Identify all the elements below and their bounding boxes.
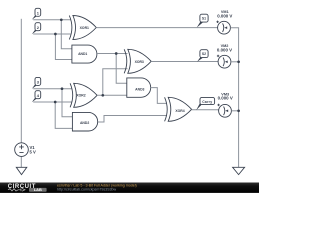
- node dot AND1 out branch: [115, 52, 118, 55]
- wire branch to AND2 top: [62, 89, 72, 117]
- wire V1 to ground: [20, 157, 22, 168]
- node dot rail VM2: [237, 60, 240, 63]
- wire XOR2 out to AND3 bottom: [97, 94, 127, 96]
- footer bar: [0, 183, 259, 193]
- node dot input2 branch: [54, 33, 57, 36]
- wire VM1 right to rail down to ground: [230, 28, 238, 168]
- svg-text:XOR4: XOR4: [175, 109, 184, 113]
- xor gate XOR1: [69, 16, 96, 40]
- wire input 1 to XOR1: [33, 19, 70, 21]
- svg-text:XOR1: XOR1: [80, 26, 89, 30]
- flag S1: [197, 22, 204, 28]
- wire VM3 right to rail: [231, 110, 238, 112]
- wire branch to AND1 bottom: [55, 34, 72, 60]
- node dot XOR2 out branch: [101, 94, 104, 97]
- svg-text:XOR3: XOR3: [135, 60, 144, 64]
- svg-text:S1: S1: [202, 17, 206, 21]
- svg-text:http://circuitlab.com/ckpsm79s: http://circuitlab.com/ckpsm79s3S3bw: [57, 187, 117, 191]
- wire XOR3 out to VM2: [151, 61, 218, 63]
- svg-text:0.000 V: 0.000 V: [217, 48, 232, 53]
- and gate AND1: [72, 45, 97, 63]
- voltage source V1: [15, 143, 29, 157]
- svg-text:0.000 V: 0.000 V: [218, 95, 233, 100]
- flag S2: [197, 57, 204, 62]
- voltmeter VM1: [216, 10, 232, 34]
- wire XOR4 out to VM3: [192, 109, 219, 112]
- wire input 3 to XOR2: [33, 88, 72, 90]
- xor gate XOR4: [165, 97, 192, 121]
- ground (right): [233, 167, 245, 174]
- node dot input4 branch: [54, 101, 57, 104]
- flag 1: [32, 16, 37, 20]
- svg-text:5 V: 5 V: [30, 150, 36, 155]
- wire branch to AND1 top: [61, 20, 72, 49]
- wire VM2 right to rail: [231, 61, 239, 63]
- ground (left): [16, 167, 27, 174]
- wire AND1 out to XOR3: [97, 53, 128, 55]
- svg-text:AND2: AND2: [80, 121, 89, 125]
- wire left rail from V1 up: [20, 19, 22, 143]
- flag 2: [32, 30, 37, 34]
- and gate AND3: [127, 78, 151, 97]
- wire AND3 out to XOR4 top input: [151, 88, 167, 104]
- xor gate XOR2: [70, 83, 97, 107]
- wire branch XOR2 out up to XOR3 bottom input: [103, 69, 128, 96]
- xor gate XOR3: [124, 49, 151, 73]
- svg-text:LAB: LAB: [34, 187, 42, 192]
- svg-text:S2: S2: [202, 52, 206, 56]
- wire AND2 out to XOR4 bottom input: [98, 116, 167, 123]
- voltmeter VM2: [217, 44, 232, 68]
- wire XOR1 out to VM1: [96, 27, 217, 29]
- flag 3: [32, 85, 37, 89]
- svg-text:XOR2: XOR2: [76, 94, 85, 98]
- svg-text:AND3: AND3: [135, 88, 144, 92]
- node dot input3 branch: [61, 87, 64, 90]
- node dot rail VM3: [237, 109, 240, 112]
- flag 4: [32, 98, 37, 102]
- svg-text:Carry: Carry: [202, 100, 212, 104]
- svg-text:AND1: AND1: [78, 52, 87, 56]
- node dot input1 branch: [60, 18, 63, 21]
- voltmeter VM3: [217, 92, 232, 117]
- wire branch AND1 out down to AND3 top: [116, 54, 127, 84]
- flag Carry: [196, 102, 204, 110]
- wire input 2 to XOR1: [33, 33, 70, 35]
- wire branch to AND2 bottom: [55, 102, 72, 128]
- and gate AND2: [72, 112, 97, 131]
- svg-text:0.000 V: 0.000 V: [217, 14, 232, 19]
- wire input 4 to XOR2: [33, 101, 72, 103]
